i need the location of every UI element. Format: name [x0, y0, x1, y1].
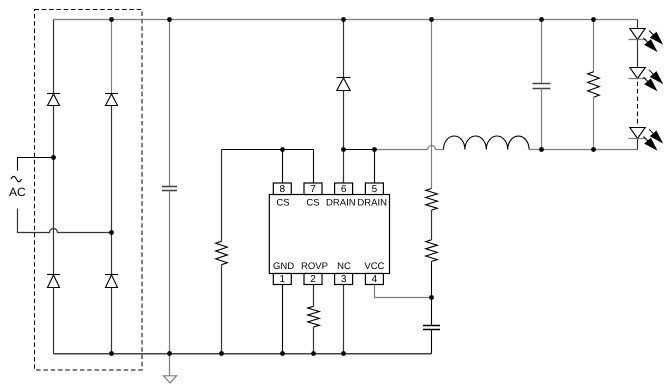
- svg-text:DRAIN: DRAIN: [326, 198, 356, 209]
- LED D6 emission arrows: [643, 31, 662, 51]
- svg-text:6: 6: [341, 184, 347, 195]
- pin 1 box: [273, 274, 291, 285]
- wire: between startup resistors: [431, 210, 433, 240]
- svg-text:8: 8: [280, 184, 286, 195]
- svg-text:2: 2: [310, 274, 316, 285]
- LED D8 emission arrows: [643, 129, 662, 149]
- node: top rail / bridge right: [109, 17, 114, 22]
- wire: LED string between D6 and D7: [637, 40, 639, 68]
- resistor R_ovp: [308, 306, 320, 327]
- wire: pin 1 GND drop: [282, 285, 284, 354]
- node: output net / pin 6: [341, 147, 346, 152]
- wire: bulk capacitor branch lower: [169, 191, 171, 354]
- resistor R1 (startup upper): [426, 189, 438, 211]
- wire: output net to inductor with hop over VCC branch: [375, 146, 444, 150]
- ground: [164, 354, 177, 384]
- wire: pin 8 riser: [282, 150, 284, 184]
- wire: dashed continuation of LED string: [637, 82, 639, 126]
- wire: bridge left branch lower: [53, 288, 55, 354]
- wire: output capacitor branch lower: [541, 89, 543, 150]
- svg-text:7: 7: [310, 184, 316, 195]
- node: top rail / bleeder resistor: [591, 17, 596, 22]
- wire: pin 7 riser: [313, 150, 315, 184]
- svg-text:VCC: VCC: [364, 261, 384, 272]
- inductor L1: [444, 136, 530, 150]
- svg-text:1: 1: [280, 274, 286, 285]
- node: output net / bleeder resistor: [591, 147, 596, 152]
- svg-text:3: 3: [341, 274, 347, 285]
- pin 6 box: [335, 183, 353, 195]
- wire: bridge left branch middle: [53, 106, 55, 275]
- wire: pin 2 ROVP drop upper: [313, 285, 315, 307]
- pin 7 box: [304, 183, 322, 195]
- wire: pin 5 riser: [374, 150, 376, 184]
- wire: bridge right branch lower: [111, 288, 113, 354]
- svg-text:GND: GND: [273, 261, 294, 272]
- wire: CS sense resistor branch lower: [221, 265, 223, 354]
- svg-text:4: 4: [372, 274, 378, 285]
- diode D2: [105, 94, 118, 106]
- node: AC lower terminal junction: [109, 230, 114, 235]
- wire: CS sense resistor branch upper: [221, 150, 223, 242]
- diode D4: [105, 275, 118, 288]
- LED D8: [629, 128, 647, 139]
- wire: top positive rail: [54, 19, 638, 21]
- wire: VCC chain branch from top rail: [431, 20, 433, 189]
- node: top rail / VCC chain: [429, 17, 434, 22]
- wire: LED string top: [637, 20, 639, 29]
- node: top rail / output cap: [539, 17, 544, 22]
- diode D5 (freewheeling): [337, 78, 351, 91]
- wire: output net inductor to LED string: [529, 149, 637, 151]
- wire: CS net horizontal: [222, 149, 314, 151]
- resistor R3 (bleeder): [588, 72, 600, 97]
- node: bottom rail / pin 3: [341, 351, 346, 356]
- node: bottom rail / pin 1: [280, 351, 285, 356]
- wire: pin 4 VCC connection: [375, 285, 432, 298]
- diode D3: [47, 275, 60, 288]
- node: bottom rail / ground: [167, 351, 172, 356]
- wire: bulk capacitor branch upper: [169, 20, 171, 187]
- wire: output net pin6 to pin5: [344, 149, 375, 151]
- node: output net / output cap: [539, 147, 544, 152]
- node: bottom rail / bridge right: [109, 351, 114, 356]
- svg-text:DRAIN: DRAIN: [357, 198, 387, 209]
- capacitor C1 (bulk): [162, 187, 177, 191]
- node: bottom rail / pin 2: [311, 351, 316, 356]
- diode D1: [47, 94, 60, 106]
- wire: bridge left branch upper: [53, 20, 55, 94]
- LED D6: [629, 29, 647, 40]
- svg-text:ROVP: ROVP: [301, 261, 328, 272]
- svg-text:CS: CS: [276, 198, 289, 209]
- node: CS net / pin 8: [280, 147, 285, 152]
- wire: startup resistors to VCC node: [431, 261, 433, 325]
- AC source tilde symbol: [11, 176, 22, 181]
- AC source lower lead with hop over left bridge branch: [18, 209, 112, 233]
- wire: bridge right branch upper: [111, 20, 113, 94]
- wire: freewheeling diode branch upper: [343, 20, 345, 78]
- capacitor C2 (output): [533, 84, 551, 89]
- pin 3 box: [335, 274, 353, 285]
- LED D7: [629, 68, 647, 79]
- node: AC upper terminal junction: [51, 155, 56, 160]
- capacitor C3 (VCC): [423, 326, 440, 330]
- resistor R2 (startup lower): [426, 240, 438, 262]
- pin 2 box: [304, 274, 322, 285]
- wire: bleeder resistor branch lower: [593, 97, 595, 149]
- svg-text:CS: CS: [306, 198, 319, 209]
- wire: pin 3 NC drop: [343, 285, 345, 354]
- node: output net / pin 5: [372, 147, 377, 152]
- op-amp U1 body (controller IC): [269, 195, 389, 274]
- wire: output capacitor branch upper: [541, 20, 543, 84]
- svg-text:AC: AC: [9, 185, 26, 199]
- svg-text:NC: NC: [337, 261, 351, 272]
- wire: bleeder resistor branch upper: [593, 20, 595, 72]
- pin 5 box: [365, 183, 383, 195]
- LED D7 emission arrows: [643, 70, 662, 90]
- wire: pin 2 ROVP drop lower: [313, 327, 315, 353]
- pin 4 box: [365, 274, 383, 285]
- resistor R_cs: [216, 241, 228, 264]
- wire: LED string bottom: [637, 139, 639, 150]
- wire: freewheeling diode branch lower to pin 6: [343, 91, 345, 184]
- wire: bridge right branch middle: [111, 106, 113, 275]
- node: top rail / freewheeling diode: [341, 17, 346, 22]
- dashed box: bridge rectifier BR1 outline: [35, 10, 143, 371]
- node: top rail / bulk cap: [167, 17, 172, 22]
- svg-text:5: 5: [372, 184, 378, 195]
- node: bottom rail / CS resistor: [219, 351, 224, 356]
- node: VCC node: [429, 295, 434, 300]
- pin 8 box: [273, 183, 291, 195]
- wire: bottom return rail: [54, 353, 432, 355]
- wire: VCC capacitor to bottom rail: [431, 330, 433, 354]
- AC source upper lead: [18, 158, 54, 171]
